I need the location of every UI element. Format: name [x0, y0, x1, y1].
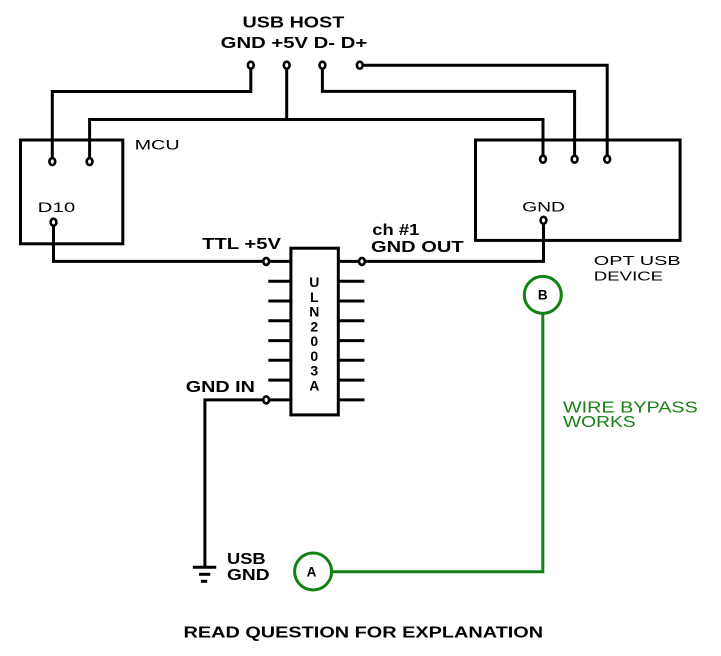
svg-text:WORKS: WORKS	[563, 414, 636, 431]
wire D10 to ULN pin 1	[54, 222, 267, 261]
svg-text:GND IN: GND IN	[186, 379, 255, 396]
pin host D+	[357, 62, 363, 69]
svg-text:GND OUT: GND OUT	[371, 239, 464, 256]
pin host +5V	[284, 62, 290, 69]
pin MCU D10	[51, 219, 57, 226]
pin MCU 2	[87, 158, 93, 165]
box OPT USB DEVICE	[476, 140, 681, 240]
pin ULN 7 left stub	[268, 379, 291, 382]
pin host GND	[248, 62, 254, 69]
label GND IN	[186, 379, 255, 396]
pin ULN 4 left stub	[268, 319, 291, 322]
svg-text:A: A	[307, 564, 317, 579]
ground symbol USB GND	[193, 567, 216, 581]
label MCU	[135, 137, 180, 152]
pin ULN 15 right stub	[338, 379, 364, 382]
svg-text:2: 2	[310, 318, 318, 334]
svg-text:DEVICE: DEVICE	[594, 268, 664, 283]
pin ULN 13 right stub	[338, 339, 364, 342]
svg-text:N: N	[309, 304, 319, 320]
svg-text:B: B	[538, 288, 548, 303]
wire green bypass: node B to node A	[333, 313, 543, 571]
wire GND: host GND pin to MCU pin 1	[52, 65, 251, 161]
svg-text:0: 0	[310, 348, 318, 364]
pin ULN 6 left stub	[268, 359, 291, 362]
label GND OUT	[371, 239, 464, 256]
svg-text:L: L	[310, 289, 319, 305]
pin ULN 5 left stub	[268, 339, 291, 342]
svg-text:U: U	[309, 274, 319, 290]
node B	[524, 276, 561, 313]
svg-text:USB: USB	[227, 551, 266, 568]
label ULN2003A vertical	[309, 274, 319, 393]
pin ULN 3 left stub	[268, 300, 291, 303]
pin OPT 1	[540, 156, 546, 163]
wire +5V rail: host +5V pin to MCU pin 2 and OPT USB pin 1	[90, 65, 543, 161]
IC MCU box	[21, 140, 123, 244]
label D10	[38, 200, 76, 215]
svg-text:READ QUESTION FOR EXPLANATION: READ QUESTION FOR EXPLANATION	[184, 625, 544, 642]
svg-text:0: 0	[310, 333, 318, 349]
pin OPT GND	[541, 217, 547, 224]
label READ QUESTION FOR EXPLANATION	[184, 625, 544, 642]
wire D-: host D- pin to OPT USB pin 2	[322, 65, 574, 159]
svg-text:MCU: MCU	[135, 137, 180, 152]
label USB HOST	[243, 14, 345, 31]
pin ULN 2 left stub	[268, 280, 291, 283]
pin ULN 9 right GND OUT	[338, 258, 365, 265]
label TTL +5V	[202, 236, 281, 253]
label ch #1	[372, 222, 419, 239]
label GND +5V D- D+	[221, 35, 368, 52]
pin ULN 16 right stub	[338, 398, 364, 401]
pin ULN 11 right stub	[338, 300, 364, 303]
pin OPT 3	[604, 156, 610, 163]
label GND inside OPT box	[522, 199, 565, 214]
svg-text:A: A	[309, 377, 319, 393]
node A	[295, 553, 332, 590]
wire ch #1 GND OUT: ULN pin 9 to OPT USB GND pin	[362, 220, 544, 261]
pin MCU 1	[49, 158, 55, 165]
label DEVICE	[594, 268, 664, 283]
pin ULN 10 right stub	[338, 280, 364, 283]
IC U1 ULN2003A box	[291, 248, 338, 415]
svg-text:D10: D10	[38, 200, 76, 215]
wire GND IN: ULN pin 8 to USB GND	[205, 400, 266, 567]
wire D+: host D+ pin to OPT USB pin 3	[360, 65, 607, 159]
label WIRE BYPASS	[563, 400, 698, 417]
svg-text:GND: GND	[227, 567, 270, 584]
label USB GND	[227, 551, 270, 584]
svg-text:GND: GND	[522, 199, 565, 214]
svg-text:OPT USB: OPT USB	[594, 253, 681, 268]
label OPT USB	[594, 253, 681, 268]
pin ULN 12 right stub	[338, 319, 364, 322]
pin ULN 1 left stub	[263, 258, 291, 265]
pin ULN 8 left GND IN	[266, 398, 291, 401]
svg-text:3: 3	[310, 363, 318, 379]
pin ULN 14 right stub	[338, 359, 364, 362]
pin ULN GND IN	[263, 396, 269, 403]
svg-text:USB HOST: USB HOST	[243, 14, 345, 31]
pin OPT 2	[572, 156, 578, 163]
svg-text:GND +5V D- D+: GND +5V D- D+	[221, 35, 368, 52]
pin host D-	[320, 62, 326, 69]
svg-text:ch #1: ch #1	[372, 222, 419, 239]
label WORKS	[563, 414, 636, 431]
svg-text:TTL +5V: TTL +5V	[202, 236, 281, 253]
